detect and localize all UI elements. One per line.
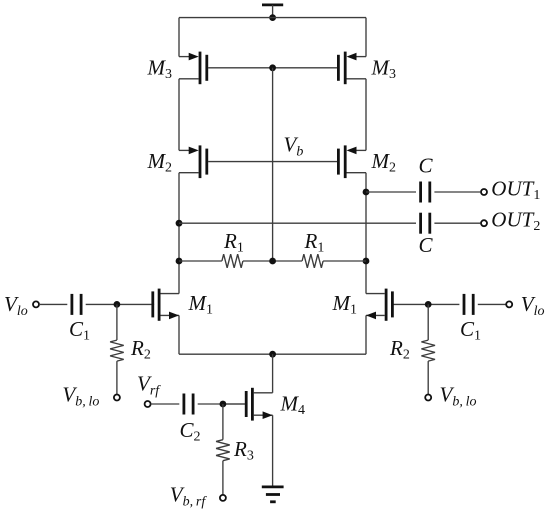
capacitor C1 (left): [72, 294, 81, 315]
junction: M4 gate node: [220, 401, 227, 408]
junction: M1 right gate node: [425, 301, 432, 308]
wire: M1 left source down to tail: [178, 315, 180, 354]
transistor M2 (PMOS, right): [273, 145, 366, 178]
wire: left M3 drain to M2 source: [178, 79, 180, 151]
transistor M1 (left) (NMOS): [152, 289, 180, 321]
transistor M3 (PMOS, left): [179, 52, 273, 85]
wire: left rail VDD to M3 source: [178, 18, 180, 57]
junction: M3 gates node: [269, 64, 276, 71]
resistor R2 (right): [421, 304, 435, 394]
terminal Vb,rf: [220, 495, 226, 501]
junction: right node at R1: [363, 258, 370, 265]
capacitor C (OUT1): [421, 182, 430, 203]
junction: R1 midpoint: [269, 258, 276, 265]
junction: tail node: [269, 351, 276, 358]
transistor M2 (PMOS, left): [179, 145, 273, 178]
resistor R1 (left): [222, 254, 243, 268]
capacitor C2: [184, 394, 193, 415]
VDD supply symbol: [262, 5, 283, 18]
wire: R1 left to midpoint: [243, 260, 302, 262]
junction: left node at R1: [176, 258, 183, 265]
svg-text:C: C: [419, 154, 434, 178]
terminal Vb,lo right: [425, 395, 431, 401]
wire: tail line: [179, 353, 366, 355]
terminal OUT1: [481, 189, 487, 195]
wire: center vertical M3 gates to R1 midpoint: [272, 68, 274, 261]
wire: M1 right source down to tail: [365, 315, 367, 354]
terminal Vb,lo left: [114, 395, 120, 401]
resistor R2 (left): [110, 304, 124, 394]
wire: OUT1 line: [366, 191, 416, 193]
svg-text:OUT2: OUT2: [491, 208, 540, 235]
resistor R1 (right): [302, 254, 323, 268]
wire: R1 right segment: [323, 260, 366, 262]
wire: OUT2 line: [179, 222, 416, 224]
terminal OUT2: [481, 220, 487, 226]
wire: C1 right to Vlo right: [478, 303, 506, 305]
wire: R1 line left segment: [179, 260, 222, 262]
transistor M4 (NMOS): [223, 388, 273, 421]
junction: M1 left gate node: [114, 301, 121, 308]
wire: right rail VDD to M3 source: [365, 18, 367, 57]
wire: M4 source down to ground: [272, 415, 274, 486]
wire: M4 drain up to tail: [272, 354, 274, 393]
terminal Vrf: [145, 401, 151, 407]
wire: right M3 drain to M2 source: [365, 79, 367, 151]
wire: C2 to M4 gate: [198, 403, 245, 405]
junction: right output node at OUT1 tap: [363, 189, 370, 196]
svg-text:C: C: [419, 233, 434, 257]
transistor M3 (PMOS, right): [273, 52, 366, 85]
wire: OUT1 cap to terminal: [434, 191, 480, 193]
capacitor C1 (right): [464, 294, 473, 315]
svg-text:OUT1: OUT1: [491, 176, 540, 203]
wire: right M2 drain down to M1 drain: [365, 173, 367, 294]
wire: top supply rail: [179, 17, 366, 19]
junction: VDD node: [269, 14, 276, 21]
wire: Vlo to C1 left: [39, 303, 67, 305]
wire: Vrf to C2: [151, 403, 180, 405]
ground: [262, 487, 284, 502]
transistor M1 (right) (NMOS, right): [366, 289, 427, 321]
wire: OUT2 cap to terminal: [434, 222, 480, 224]
terminal Vlo left: [33, 301, 39, 307]
resistor R3: [216, 404, 230, 495]
junction: left output node at OUT2 tap: [176, 220, 183, 227]
wire: C1 to M1 left gate: [86, 303, 152, 305]
capacitor C (OUT2): [421, 213, 430, 234]
terminal Vlo right: [506, 301, 512, 307]
wire: M1 right gate to C1 right: [427, 303, 459, 305]
wire: left M2 drain down to M1 drain: [178, 173, 180, 294]
